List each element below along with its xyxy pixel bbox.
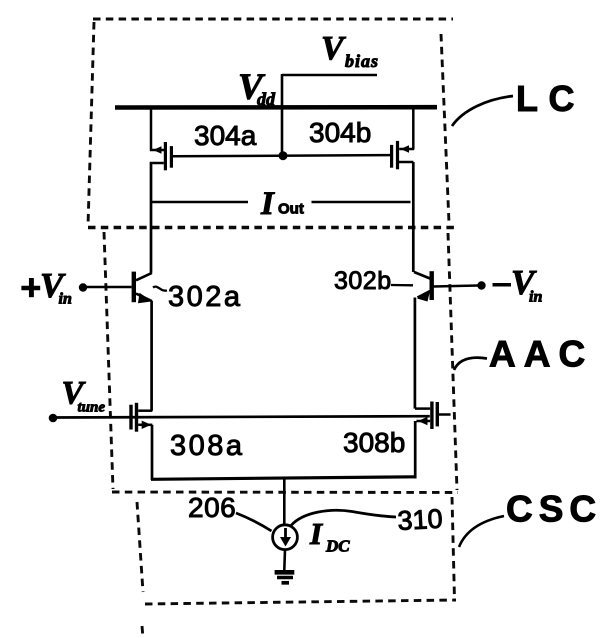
svg-text:308a: 308a	[170, 430, 245, 462]
svg-text:V: V	[321, 30, 346, 67]
wire to ground	[283, 550, 286, 570]
label AAC leader	[454, 358, 487, 370]
transistor 304b (MOS right)	[392, 108, 414, 273]
label LC leader	[452, 96, 513, 126]
node +Vin terminal dot	[79, 283, 87, 291]
node -Vin label	[493, 283, 512, 287]
svg-text:LC: LC	[516, 78, 585, 119]
wire gate bus 304	[173, 155, 390, 156]
Vdd rail	[115, 105, 437, 110]
dashed box CSC	[137, 497, 456, 638]
node Vtune terminal dot	[49, 414, 58, 423]
svg-text:302a: 302a	[168, 281, 243, 313]
svg-text:Out: Out	[278, 201, 304, 218]
svg-text:304a: 304a	[194, 120, 257, 151]
wire Vbias	[282, 74, 377, 156]
dashed box LC	[88, 19, 453, 226]
wire bottom rail	[151, 477, 416, 480]
junction dot gate bus	[279, 151, 288, 160]
dashed box AAC	[88, 228, 458, 493]
transistor 304a (MOS left)	[150, 108, 172, 273]
label 302b leader	[391, 284, 413, 287]
svg-text:DC: DC	[325, 537, 350, 556]
svg-text:304b: 304b	[309, 117, 371, 148]
label CSC leader	[459, 516, 504, 547]
svg-text:CSC: CSC	[506, 489, 602, 530]
svg-text:in: in	[59, 291, 72, 308]
current source 310	[273, 525, 298, 550]
svg-text:in: in	[529, 289, 542, 306]
wire I_Out	[150, 201, 411, 204]
label 310 leader	[291, 510, 396, 525]
svg-text:I: I	[260, 186, 275, 222]
label 302a leader	[153, 287, 167, 291]
svg-text:I: I	[309, 516, 323, 551]
node -Vin terminal dot	[477, 281, 485, 289]
wire Vtune bus	[53, 416, 430, 417]
node +Vin label	[21, 286, 40, 290]
transistor 302a (BJT left)	[86, 272, 152, 411]
svg-text:dd: dd	[257, 89, 276, 109]
wire tail to current source	[283, 478, 286, 525]
svg-text:302b: 302b	[334, 267, 392, 295]
transistor 302b (BJT right)	[414, 271, 478, 408]
transistor 308a (MOS left)	[131, 403, 152, 480]
ground	[275, 572, 295, 583]
svg-text:tune: tune	[78, 400, 106, 416]
svg-text:206: 206	[188, 492, 236, 523]
svg-text:310: 310	[397, 504, 444, 536]
svg-text:AAC: AAC	[489, 334, 593, 375]
svg-text:bias: bias	[345, 51, 379, 71]
label 206 leader	[236, 513, 272, 531]
transistor 308b (MOS right)	[415, 402, 451, 479]
svg-text:308b: 308b	[343, 427, 405, 458]
